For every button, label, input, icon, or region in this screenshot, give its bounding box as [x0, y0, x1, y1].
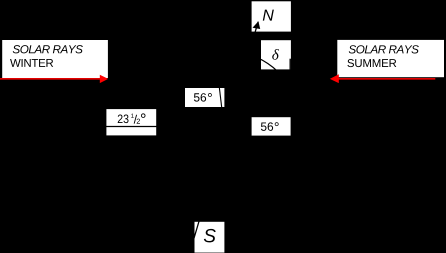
wire earth axis N-S [190, 22, 259, 253]
label SOLAR RAYS (summer) [349, 45, 419, 53]
node summer arrowhead [330, 74, 339, 83]
wire vertical line through 56 deg left box [219, 83, 223, 120]
node N axis arrowhead [253, 21, 261, 29]
box N label [252, 1, 291, 31]
wire horizontal line through 23 1/2 deg box [95, 126, 230, 128]
label SUMMER [347, 59, 396, 67]
wire summer solar ray (red) [338, 78, 435, 80]
node winter arrowhead [100, 75, 108, 83]
label 23 1/2 deg value [118, 113, 146, 123]
label SOLAR RAYS (winter) [13, 45, 83, 53]
box 56 deg left [185, 88, 224, 107]
box delta label [261, 40, 291, 69]
box 23 1/2 deg [106, 109, 156, 135]
box SOLAR RAYS WINTER [2, 40, 108, 78]
label N [263, 10, 274, 21]
box 56 deg right [252, 117, 291, 135]
label delta [272, 49, 279, 60]
label WINTER [10, 59, 53, 67]
box S label [195, 222, 225, 253]
label 56 deg right [261, 122, 279, 131]
label 56 deg left [194, 93, 212, 102]
box SOLAR RAYS SUMMER [337, 40, 444, 77]
label S [204, 229, 216, 242]
wire winter solar ray (red) [0, 78, 101, 80]
wire delta angle arc [257, 57, 279, 72]
wire notch on delta box right edge [290, 59, 291, 70]
